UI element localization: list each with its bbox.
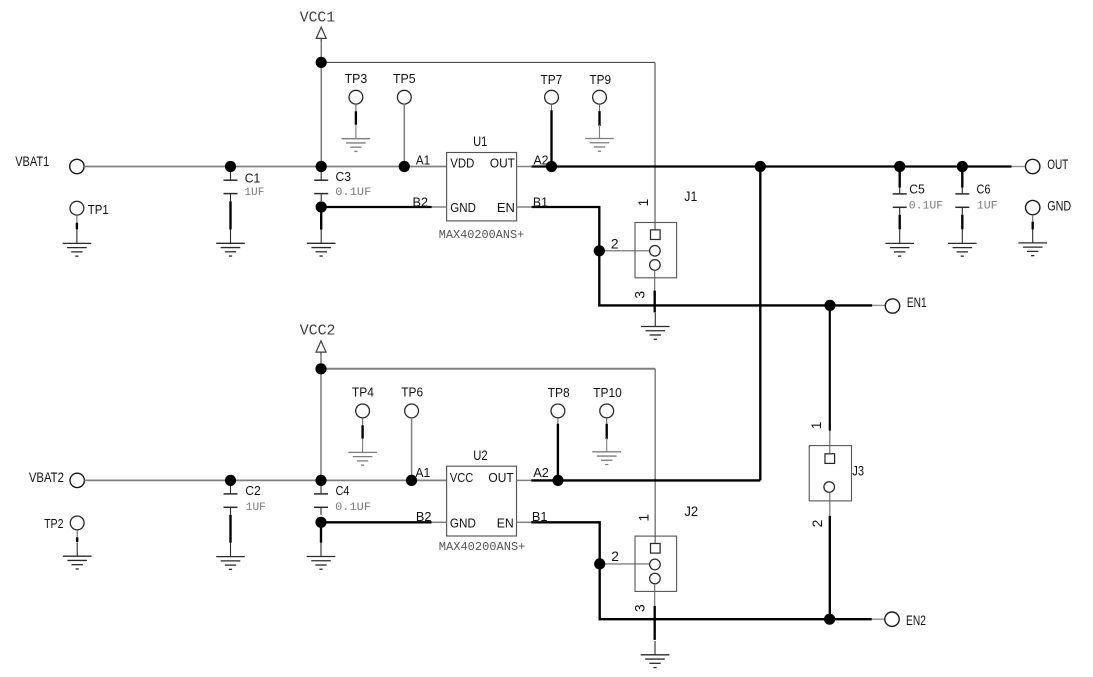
- test point TP3: [349, 90, 363, 111]
- wire C4 to ground: [320, 522, 322, 542]
- svg-text:OUT: OUT: [488, 470, 513, 485]
- svg-text:C1: C1: [245, 170, 260, 185]
- ground under C2: [216, 543, 245, 570]
- wire EN2 terminal stub: [872, 618, 885, 620]
- terminal EN1: [885, 299, 899, 313]
- test point TP5: [397, 90, 411, 111]
- svg-text:A2: A2: [533, 465, 549, 480]
- test point TP2: [70, 516, 84, 537]
- terminal OUT: [1026, 159, 1040, 173]
- wire VCC1 drop to J1 pin 1: [654, 62, 656, 230]
- wire C5 to ground: [899, 215, 901, 230]
- svg-text:C2: C2: [245, 483, 260, 498]
- connector J3 branch from EN1: [829, 305, 831, 430]
- ground under C4: [307, 543, 336, 570]
- svg-text:MAX40200ANS+: MAX40200ANS+: [439, 228, 524, 242]
- svg-text:0.1UF: 0.1UF: [335, 502, 371, 514]
- wire U2 EN pin stub: [517, 521, 532, 523]
- wire GND terminal to ground: [1032, 222, 1034, 230]
- wire C6 to ground: [961, 215, 963, 230]
- svg-text:TP10: TP10: [593, 385, 622, 400]
- wire U1 OUT pin stub: [517, 166, 532, 168]
- svg-text:2: 2: [611, 549, 619, 564]
- test point TP8: [551, 404, 565, 425]
- svg-text:TP4: TP4: [352, 384, 374, 399]
- wire VCC2 drop to J2 pin 1: [654, 369, 656, 544]
- ground under TP4: [348, 439, 377, 466]
- wire TP4 to ground: [361, 425, 363, 438]
- wire TP5 down to node A1: [403, 104, 405, 166]
- wire tap to J2 pin 2: [600, 563, 650, 565]
- capacitor C3 plates: [314, 166, 328, 201]
- wire VBAT1 rail to U1 VDD: [84, 166, 447, 168]
- ground under TP2: [63, 542, 92, 569]
- junction C1 at VBAT1 rail: [225, 161, 236, 172]
- test point TP6: [405, 404, 419, 425]
- wire VCC1 stem down to C3 junction: [320, 42, 322, 167]
- svg-text:C5: C5: [909, 182, 925, 197]
- wire C1 to ground: [229, 201, 231, 229]
- wire EN1 terminal stub: [872, 304, 885, 306]
- wire J1 pin 3 to ground: [654, 291, 656, 313]
- ground under J2: [641, 641, 670, 668]
- ground under C5: [885, 230, 914, 257]
- wire TP7 down to node A2: [550, 110, 552, 166]
- svg-text:B2: B2: [413, 194, 429, 209]
- svg-text:MAX40200ANS+: MAX40200ANS+: [439, 540, 526, 554]
- junction node A2 (U1): [546, 161, 557, 172]
- capacitor C5 plates: [893, 180, 907, 215]
- junction J2 pin 2 tap: [594, 558, 605, 569]
- connector J1: [635, 223, 677, 278]
- wire C2 to ground: [229, 515, 231, 543]
- junction EN2 at J3 branch: [824, 614, 835, 625]
- svg-text:U1: U1: [473, 134, 487, 149]
- terminal circle VBAT2: [70, 473, 84, 487]
- wire VBAT2 rail to U2 VCC: [84, 479, 446, 481]
- svg-text:J2: J2: [684, 504, 698, 519]
- wire TP2 to ground: [76, 537, 78, 542]
- junction C2 at VBAT2 rail: [225, 475, 236, 486]
- test point TP7: [545, 90, 559, 111]
- wire OUT rail down to U2 OUT: [759, 167, 761, 481]
- svg-text:VCC2: VCC2: [300, 321, 336, 339]
- svg-text:J3: J3: [852, 463, 864, 478]
- wire TP8 down to node A2: [557, 424, 559, 481]
- wire TP10 to ground: [606, 424, 608, 439]
- wire EN2 net from U2 EN to EN2 terminal: [531, 522, 872, 619]
- svg-text:A1: A1: [415, 465, 430, 480]
- wire B2 net U1 GND to C3: [321, 206, 431, 208]
- wire VCC1 rail to J1: [321, 61, 655, 63]
- capacitor C6 plates: [955, 180, 969, 215]
- wire J2 pin 3 to ground: [654, 606, 656, 640]
- test point TP1: [70, 201, 84, 222]
- wire EN1 net from U1 EN to EN1 terminal: [532, 207, 873, 305]
- wire OUT rail down to C5: [899, 167, 901, 188]
- capacitor C2 plates: [224, 480, 238, 515]
- connector J2: [635, 536, 677, 591]
- svg-text:TP2: TP2: [44, 516, 63, 531]
- wire J3 pin 2 stub: [829, 492, 831, 515]
- svg-text:VBAT1: VBAT1: [15, 154, 49, 169]
- wire TP3 to ground: [355, 111, 357, 125]
- svg-text:3: 3: [632, 291, 647, 299]
- test point TP4: [356, 404, 370, 425]
- wire VCC2 stem down to C4 junction: [320, 355, 322, 480]
- svg-text:OUT: OUT: [490, 156, 515, 171]
- svg-text:U2: U2: [473, 448, 487, 463]
- junction B2 at C4: [315, 517, 326, 528]
- ground under TP3: [342, 125, 371, 152]
- svg-text:2: 2: [810, 520, 825, 528]
- terminal GND: [1026, 200, 1040, 214]
- wire J3 pin 1 stub: [829, 431, 831, 454]
- junction node A1 (U1): [399, 161, 410, 172]
- svg-text:VCC1: VCC1: [300, 9, 335, 27]
- ground under TP10: [592, 438, 621, 465]
- ground under C6: [948, 230, 977, 257]
- svg-text:0.1UF: 0.1UF: [909, 201, 943, 213]
- wire GND terminal stub: [1032, 215, 1034, 222]
- ground under TP9: [585, 125, 614, 152]
- svg-text:TP6: TP6: [401, 384, 423, 399]
- power symbol VCC2 arrow: [316, 341, 326, 356]
- svg-text:EN: EN: [497, 200, 515, 215]
- svg-text:TP5: TP5: [393, 71, 416, 86]
- junction C5 at OUT rail: [894, 161, 905, 172]
- capacitor C4 plates: [314, 480, 328, 515]
- wire C3 to ground: [320, 207, 322, 230]
- wire J2 pin 3 stub: [654, 584, 656, 606]
- terminal EN2: [885, 612, 899, 626]
- wire OUT net rail: [532, 165, 1012, 167]
- op-amp U2 MAX40200ANS+ body: [447, 466, 517, 536]
- svg-text:TP3: TP3: [345, 71, 368, 86]
- junction node A1 (U2): [406, 475, 417, 486]
- svg-text:2: 2: [611, 237, 619, 252]
- wire U1 GND pin stub: [432, 206, 447, 208]
- svg-text:VCC: VCC: [450, 470, 474, 485]
- ground under J1: [641, 313, 670, 340]
- wire VCC2 rail to J2: [321, 368, 655, 370]
- wire TP1 to ground: [76, 223, 78, 230]
- ground under C1: [216, 230, 245, 257]
- wire U2 OUT pin stub: [517, 479, 532, 481]
- svg-text:VDD: VDD: [450, 156, 474, 171]
- svg-text:TP9: TP9: [589, 72, 611, 87]
- svg-text:A1: A1: [416, 153, 430, 168]
- svg-text:EN1: EN1: [907, 295, 927, 310]
- svg-text:J1: J1: [684, 189, 697, 204]
- svg-text:1UF: 1UF: [977, 201, 998, 213]
- svg-text:0.1UF: 0.1UF: [335, 187, 371, 199]
- svg-text:1: 1: [636, 199, 651, 207]
- junction J1 pin 2 tap: [594, 245, 605, 256]
- junction OUT rail to U2 branch: [755, 161, 766, 172]
- svg-text:3: 3: [633, 604, 648, 612]
- ground under GND terminal: [1018, 229, 1047, 256]
- svg-text:GND: GND: [450, 515, 476, 530]
- wire J3 pin 2 down to EN2: [829, 516, 831, 620]
- wire U1 EN pin stub: [517, 206, 532, 208]
- svg-text:TP8: TP8: [548, 385, 570, 400]
- wire tap to J1 pin 2: [599, 250, 649, 252]
- svg-text:VBAT2: VBAT2: [29, 470, 64, 485]
- terminal circle VBAT1: [70, 159, 84, 173]
- op-amp U1 MAX40200ANS+ body: [447, 153, 517, 221]
- svg-text:TP7: TP7: [541, 72, 563, 87]
- wire U2 OUT to branch corner: [531, 479, 760, 481]
- svg-text:B1: B1: [532, 509, 548, 524]
- wire U2 GND pin stub: [432, 521, 447, 523]
- svg-text:C4: C4: [336, 483, 350, 498]
- ground under C3: [307, 230, 336, 257]
- connector J3: [809, 446, 851, 501]
- svg-text:B1: B1: [533, 194, 548, 209]
- junction VCC1 rail: [316, 57, 327, 68]
- svg-text:GND: GND: [450, 200, 476, 215]
- junction VCC2 rail: [315, 363, 326, 374]
- wire OUT terminal stub: [1012, 166, 1026, 168]
- svg-text:OUT: OUT: [1047, 157, 1069, 172]
- wire J1 pin 3 stub: [654, 270, 656, 291]
- junction C3 at VBAT1 rail: [316, 161, 327, 172]
- svg-text:EN2: EN2: [906, 613, 926, 628]
- svg-text:1UF: 1UF: [246, 502, 266, 514]
- test point TP10: [600, 404, 614, 425]
- svg-text:TP1: TP1: [88, 202, 109, 217]
- svg-text:C6: C6: [977, 182, 991, 197]
- wire TP9 to ground: [598, 111, 600, 126]
- junction node A2 (U2): [552, 475, 563, 486]
- junction C6 at OUT rail: [957, 161, 968, 172]
- wire B2 net U2 GND to C4: [321, 521, 432, 523]
- test point TP9: [593, 90, 607, 111]
- capacitor C1 plates: [224, 166, 238, 201]
- svg-text:B2: B2: [416, 509, 432, 524]
- svg-text:C3: C3: [336, 169, 352, 184]
- wire TP6 down to node A1: [411, 418, 413, 481]
- ground under TP1: [63, 230, 92, 257]
- wire OUT rail down to C6: [961, 167, 963, 188]
- junction B2 at C3: [316, 201, 327, 212]
- junction C4 at VBAT2 rail: [315, 475, 326, 486]
- svg-text:1UF: 1UF: [244, 187, 264, 199]
- power symbol VCC1 arrow: [316, 27, 326, 42]
- svg-text:1: 1: [809, 422, 824, 430]
- junction EN1 at J3 branch: [824, 300, 835, 311]
- svg-text:EN: EN: [497, 515, 514, 530]
- svg-text:1: 1: [637, 514, 652, 522]
- svg-text:GND: GND: [1047, 198, 1071, 213]
